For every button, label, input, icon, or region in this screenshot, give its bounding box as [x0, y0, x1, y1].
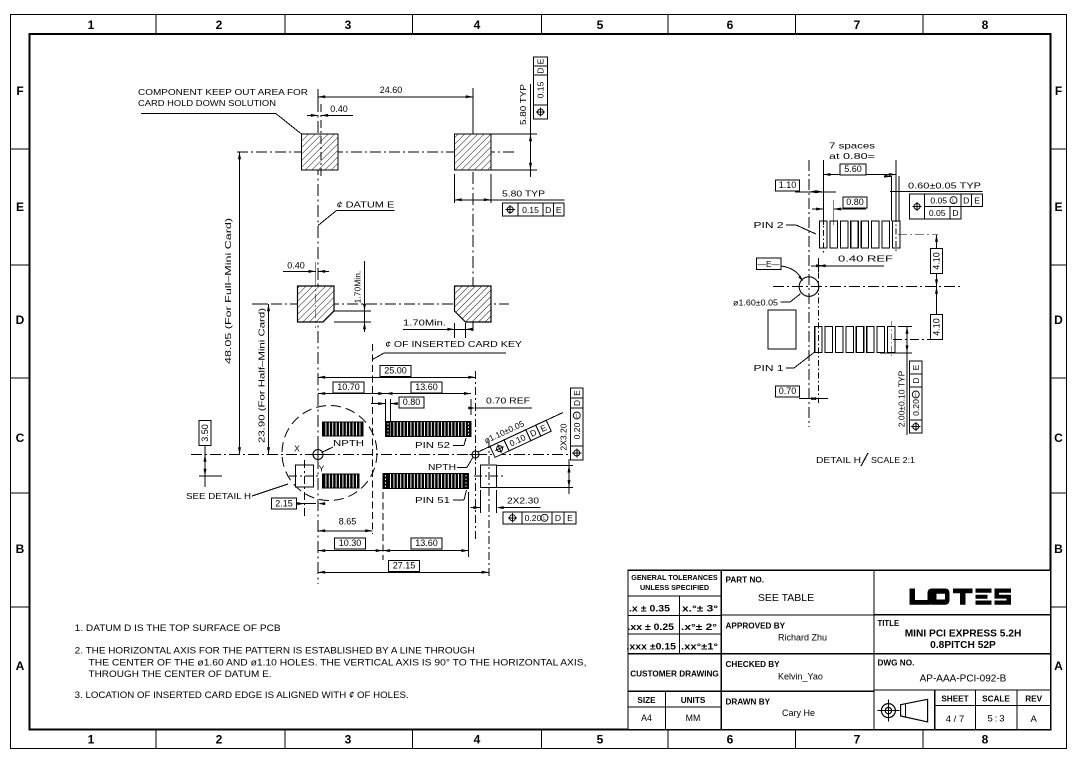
svg-text:1.70Min.: 1.70Min.	[403, 317, 446, 327]
sheet/scale/rev cells	[934, 690, 936, 730]
dimension 2X2.30 with FCF	[480, 490, 482, 513]
detail: top row right centerline extension	[898, 234, 938, 236]
svg-text:5: 5	[597, 733, 604, 747]
svg-text:ø1.60±0.05: ø1.60±0.05	[733, 298, 778, 308]
svg-text:0.20: 0.20	[911, 399, 921, 416]
svg-text:10.70: 10.70	[337, 382, 360, 392]
svg-text:NPTH: NPTH	[333, 438, 364, 448]
svg-text:C: C	[1054, 431, 1063, 445]
svg-text:1. DATUM D IS THE TOP SU: 1. DATUM D IS THE TOP SURFACE OF PCB	[75, 623, 281, 633]
svg-text:48.05 (For Full–Mini Card): 48.05 (For Full–Mini Card)	[223, 218, 233, 364]
card key slot left	[296, 465, 314, 487]
svg-text:MM: MM	[686, 713, 701, 723]
dimension 10.70 (boxed)	[318, 393, 385, 395]
svg-text:3: 3	[345, 18, 352, 32]
dimension 2.15 (boxed)	[272, 498, 297, 509]
detail: bottom row right centerline extension	[893, 338, 938, 340]
svg-text:23.90 (For Half–Mini Card): 23.90 (For Half–Mini Card)	[257, 308, 267, 443]
main X axis centerline	[191, 454, 578, 456]
svg-text:SHEET: SHEET	[941, 695, 968, 704]
svg-text:4: 4	[474, 733, 481, 747]
tolerance table	[628, 595, 721, 597]
svg-text:x.°± 3°: x.°± 3°	[682, 604, 718, 614]
third angle projection symbol	[881, 704, 895, 718]
dimension 23.90 (For Half-Mini Card)	[257, 308, 267, 443]
dimension 10.30 (boxed)	[382, 492, 384, 560]
detail: horizontal axis	[773, 286, 960, 288]
svg-text:0.40 REF: 0.40 REF	[838, 254, 893, 264]
svg-text:1.10: 1.10	[779, 180, 797, 190]
svg-text:3.50: 3.50	[200, 424, 210, 442]
zone number strip ticks and labels	[155, 15, 157, 35]
svg-text:CARD HOLD DOWN SOLUTION: CARD HOLD DOWN SOLUTION	[138, 98, 276, 108]
svg-text:2X3.20: 2X3.20	[559, 423, 569, 450]
svg-text:4.10: 4.10	[932, 252, 942, 270]
svg-text:E: E	[536, 58, 546, 64]
top pin band right (13.60)	[385, 422, 471, 437]
svg-text:7: 7	[854, 733, 861, 747]
NPTH hole right vertical centerline	[475, 371, 477, 540]
leader 1.10 +-0.05 rotated with FCF	[478, 413, 563, 453]
dimension 24.60	[472, 90, 474, 130]
svg-text:.x°± 2°: .x°± 2°	[681, 622, 717, 632]
NPTH hole 1.60 at datum	[313, 450, 323, 460]
svg-text:24.60: 24.60	[380, 85, 403, 95]
dimension 0.80 pin pitch	[384, 399, 386, 421]
svg-text:5: 5	[597, 18, 604, 32]
svg-text:0.05: 0.05	[929, 208, 946, 218]
svg-text:PIN 2: PIN 2	[754, 220, 784, 230]
svg-text:Cary He: Cary He	[782, 708, 815, 718]
dimension 13.60 bottom (boxed)	[468, 492, 470, 557]
svg-text:Y: Y	[319, 464, 325, 474]
detail: top pad row (PIN 2 row)	[820, 221, 827, 248]
svg-text:D: D	[952, 208, 958, 218]
detail: bottom pad row (PIN 1 row)	[815, 327, 822, 353]
svg-text:3. LOCATION OF INSERTED CA: 3. LOCATION OF INSERTED CARD EDGE IS ALI…	[75, 690, 409, 700]
svg-text:SCALE: SCALE	[982, 695, 1010, 704]
svg-text:7 spaces: 7 spaces	[829, 141, 875, 151]
svg-text:0.15: 0.15	[536, 81, 546, 98]
svg-text:.xx ± 0.25: .xx ± 0.25	[628, 622, 675, 632]
detail: dimension 1.10 (boxed)	[795, 191, 836, 193]
svg-text:D: D	[555, 513, 561, 523]
svg-text:B: B	[1054, 542, 1063, 556]
svg-text:13.60: 13.60	[415, 382, 438, 392]
svg-text:0.80: 0.80	[846, 197, 864, 207]
svg-text:D: D	[572, 400, 582, 406]
dimension 48.05 (For Full-Mini Card)	[223, 218, 233, 364]
svg-text:UNLESS SPECIFIED: UNLESS SPECIFIED	[640, 583, 709, 592]
svg-text:25.00: 25.00	[384, 366, 407, 376]
svg-text:1.70Min.: 1.70Min.	[353, 271, 363, 304]
svg-text:27.15: 27.15	[393, 561, 416, 571]
detail H boundary circle (dashed)	[282, 406, 377, 501]
dimension 13.60 top (boxed)	[385, 393, 471, 395]
svg-text:AP-AAA-PCI-092-B: AP-AAA-PCI-092-B	[920, 674, 1007, 685]
dimension 1.70Min horizontal (row2 right pad chamfer)	[454, 323, 456, 338]
svg-text:1: 1	[88, 733, 95, 747]
svg-text:REV: REV	[1025, 695, 1042, 704]
svg-text:L: L	[543, 516, 546, 522]
svg-text:E: E	[974, 195, 980, 205]
detail: dimension 5.60 (boxed)	[822, 160, 824, 218]
detail: pin1 centerline	[817, 260, 819, 403]
svg-text:DETAIL H: DETAIL H	[816, 455, 861, 465]
svg-text:0.70 REF: 0.70 REF	[486, 395, 530, 405]
svg-text:4 / 7: 4 / 7	[946, 714, 965, 725]
svg-text:2. THE HORIZONTAL AXIS FOR: 2. THE HORIZONTAL AXIS FOR THE PATTERN I…	[75, 646, 475, 656]
svg-text:0.15: 0.15	[522, 205, 539, 215]
svg-text:APPROVED BY: APPROVED BY	[726, 622, 786, 631]
svg-text:B: B	[16, 542, 25, 556]
svg-text:.xxx ±0.15: .xxx ±0.15	[627, 642, 677, 652]
svg-text:E: E	[572, 390, 582, 396]
svg-text:D: D	[911, 377, 921, 383]
svg-text:2: 2	[216, 733, 223, 747]
detail: main vertical axis	[808, 160, 810, 427]
keep-out pad row1 right (hatched)	[455, 134, 492, 170]
dimension 27.15 (boxed)	[318, 571, 489, 573]
dimension 0.70 REF	[470, 399, 472, 415]
svg-text:0.60±0.05 TYP: 0.60±0.05 TYP	[908, 181, 981, 191]
svg-text:A: A	[16, 659, 25, 673]
keep-out pad row1 left (hatched)	[302, 134, 339, 170]
svg-text:D: D	[16, 313, 25, 327]
svg-text:6: 6	[727, 733, 734, 747]
detail: card key slot	[768, 310, 796, 349]
svg-text:2X2.30: 2X2.30	[507, 495, 539, 505]
svg-text:¢ OF INSERTED CARD KEY: ¢ OF INSERTED CARD KEY	[385, 339, 522, 349]
svg-text:.xx°±1°: .xx°±1°	[681, 642, 718, 652]
svg-text:0.80: 0.80	[403, 397, 421, 407]
keep-out pad row2 right (hatched, chamfer bottom-left)	[455, 286, 492, 322]
bottom pin band right (13.60)	[383, 474, 469, 489]
svg-text:2.15: 2.15	[275, 498, 293, 508]
svg-text:CHECKED BY: CHECKED BY	[726, 660, 781, 669]
bottom pin band left	[323, 474, 360, 488]
svg-text:8.65: 8.65	[339, 517, 357, 527]
svg-text:0.8PITCH 52P: 0.8PITCH 52P	[930, 640, 996, 651]
svg-text:SCALE 2:1: SCALE 2:1	[871, 455, 915, 465]
detail: dimension 0.70 (boxed)	[799, 398, 828, 400]
detail: dimension 0.80 (boxed)	[822, 200, 824, 225]
svg-text:10.30: 10.30	[339, 538, 362, 548]
svg-text:5 : 3: 5 : 3	[987, 714, 1004, 725]
svg-text:1: 1	[88, 18, 95, 32]
dimension 5.80 TYP horizontal (below row1 right pad)	[454, 174, 456, 203]
svg-text:TITLE: TITLE	[878, 619, 900, 628]
svg-text:E: E	[16, 200, 24, 214]
svg-text:F: F	[1055, 84, 1062, 98]
row1 left pad centerline	[320, 104, 322, 176]
svg-text:.x ± 0.35: .x ± 0.35	[629, 604, 670, 614]
title block outer	[628, 570, 1051, 729]
svg-text:SIZE: SIZE	[637, 696, 656, 705]
dimension 3.50 (boxed, vertical)	[199, 475, 222, 477]
detail: dimension 4.10 upper (boxed)	[936, 235, 938, 287]
svg-text:PART NO.: PART NO.	[726, 576, 765, 585]
detail: datum E flag	[757, 258, 782, 270]
keep-out pad row2 left (hatched, chamfer bottom-right)	[298, 286, 335, 322]
svg-text:5.80 TYP: 5.80 TYP	[502, 189, 545, 199]
svg-text:A4: A4	[641, 713, 652, 723]
svg-text:L: L	[952, 198, 955, 204]
svg-text:COMPONENT KEEP OUT AREA FO: COMPONENT KEEP OUT AREA FOR	[138, 87, 308, 97]
dimension 1.70Min vertical (row2 left pad chamfer)	[334, 310, 371, 312]
svg-text:8: 8	[982, 733, 989, 747]
svg-text:6: 6	[727, 18, 734, 32]
svg-text:CUSTOMER DRAWING: CUSTOMER DRAWING	[630, 670, 719, 679]
svg-text:Richard Zhu: Richard Zhu	[778, 633, 827, 643]
detail: top row last pad centerline	[895, 216, 897, 252]
svg-text:—E—: —E—	[758, 260, 781, 269]
svg-text:PIN 1: PIN 1	[754, 363, 784, 373]
svg-text:5.60: 5.60	[844, 164, 862, 174]
datum E vertical centerline	[317, 100, 319, 584]
svg-text:NPTH: NPTH	[428, 462, 456, 472]
svg-text:E: E	[1054, 200, 1062, 214]
svg-text:E: E	[556, 205, 562, 215]
svg-text:SEE TABLE: SEE TABLE	[758, 592, 814, 604]
svg-text:D: D	[963, 195, 969, 205]
NPTH hole 1.10 right	[472, 451, 479, 458]
svg-text:0.20: 0.20	[525, 513, 542, 523]
right pad column vertical centerline	[472, 88, 474, 334]
svg-text:E: E	[567, 513, 573, 523]
svg-text:SEE DETAIL H: SEE DETAIL H	[186, 491, 251, 501]
top pin band left	[323, 422, 364, 436]
logo and title column	[874, 614, 1051, 616]
part/approval column	[721, 614, 874, 616]
centerline row2 (horizontal)	[252, 303, 509, 305]
detail: dimension 4.10 lower (boxed)	[936, 287, 938, 340]
svg-text:4.10: 4.10	[932, 318, 942, 336]
detail: pin2 centerline	[822, 180, 824, 255]
svg-text:2: 2	[216, 18, 223, 32]
svg-text:8: 8	[982, 18, 989, 32]
svg-text:THE CENTER OF THE ø1.60 A: THE CENTER OF THE ø1.60 AND ø1.10 HOLES.…	[89, 657, 587, 667]
svg-text:MINI PCI EXPRESS 5.2H: MINI PCI EXPRESS 5.2H	[905, 629, 1022, 640]
detail: hole 1.60 circle	[799, 277, 819, 297]
svg-text:at 0.80=: at 0.80=	[829, 151, 875, 161]
svg-text:0.40: 0.40	[330, 104, 348, 114]
detail: dimension 0.60+-0.05 TYP with double FCF	[891, 176, 893, 221]
svg-text:D: D	[545, 205, 551, 215]
svg-text:13.60: 13.60	[415, 538, 438, 548]
svg-text:¢ DATUM E: ¢ DATUM E	[336, 200, 394, 210]
svg-text:C: C	[16, 431, 25, 445]
svg-text:UNITS: UNITS	[681, 696, 706, 705]
svg-text:L: L	[576, 414, 579, 420]
svg-text:PIN 51: PIN 51	[415, 495, 450, 505]
card key slot left centerlines	[304, 460, 306, 517]
centerline row1 (horizontal)	[237, 151, 517, 153]
svg-text:A: A	[1054, 659, 1063, 673]
card key vertical centerline	[372, 344, 374, 534]
svg-text:L: L	[915, 393, 918, 399]
svg-text:0.20: 0.20	[572, 422, 582, 439]
svg-text:4: 4	[474, 18, 481, 32]
dimension 2X3.20 with vertical FCF	[497, 464, 574, 466]
detail: dimension 2.00+-0.10 TYP with vertical FCF	[880, 352, 912, 354]
dimension 25.00 (boxed)	[318, 376, 476, 378]
svg-text:5.80 TYP: 5.80 TYP	[518, 84, 528, 125]
svg-text:3: 3	[345, 733, 352, 747]
svg-text:F: F	[16, 84, 23, 98]
svg-text:X: X	[294, 444, 300, 454]
detail: bottom row last pad centerline	[890, 321, 892, 358]
svg-text:0.40: 0.40	[287, 260, 305, 270]
svg-text:GENERAL TOLERANCES: GENERAL TOLERANCES	[631, 573, 718, 582]
svg-text:A: A	[1031, 714, 1038, 725]
LOTES logo	[910, 589, 1012, 605]
svg-text:DRAWN BY: DRAWN BY	[726, 698, 771, 707]
row2 left pad centerline	[315, 262, 317, 328]
svg-text:D: D	[536, 67, 546, 73]
card key slot right centerlines	[488, 440, 490, 576]
svg-text:D: D	[1054, 313, 1063, 327]
svg-text:E: E	[911, 364, 921, 370]
svg-text:DWG NO.: DWG NO.	[878, 659, 915, 668]
card key slot right	[481, 465, 497, 488]
svg-text:0.05: 0.05	[930, 195, 947, 205]
svg-text:THROUGH THE CENTER OF DATU: THROUGH THE CENTER OF DATUM E.	[89, 669, 272, 679]
svg-text:0.70: 0.70	[779, 386, 797, 396]
svg-text:7: 7	[854, 18, 861, 32]
svg-text:Kelvin_Yao: Kelvin_Yao	[778, 672, 823, 682]
svg-text:2.00±0.10 TYP: 2.00±0.10 TYP	[897, 370, 907, 427]
dimension 5.80 TYP vertical (right of row1 right pad)	[491, 133, 537, 135]
svg-text:PIN 52: PIN 52	[415, 440, 450, 450]
